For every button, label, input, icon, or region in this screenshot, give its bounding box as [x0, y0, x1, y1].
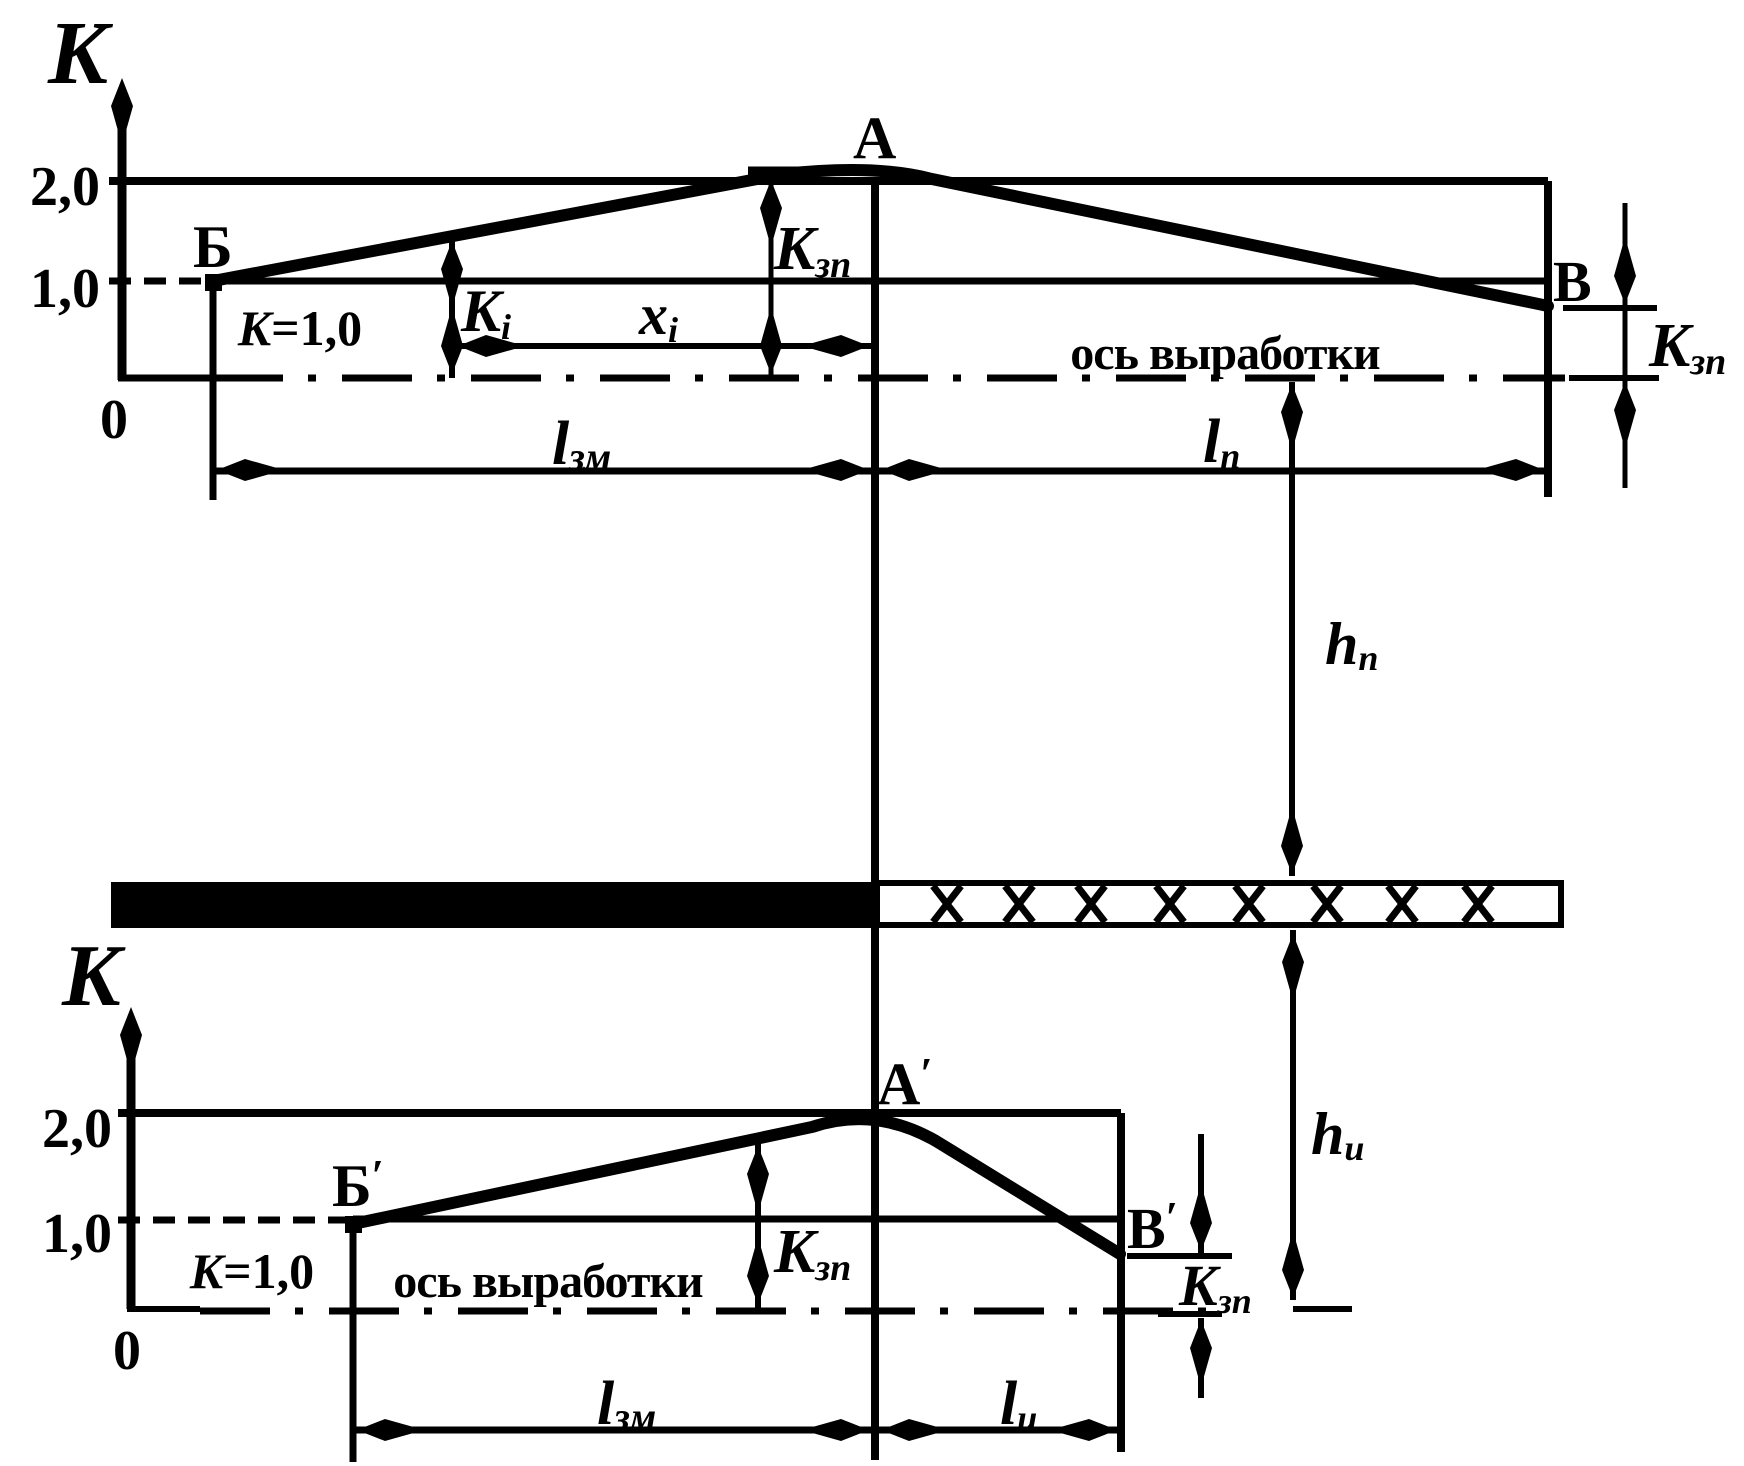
K=1.0 dashed segment (bottom, left of Б') — [118, 1217, 355, 1224]
K=1.0 level line (top) — [213, 278, 1548, 285]
hatched bar (right half) — [877, 883, 1561, 925]
svg-text:0: 0 — [100, 389, 128, 451]
lзм / lп dimension line (top) — [213, 468, 1548, 475]
Кi dimension line — [449, 239, 455, 378]
svg-text:Kзп: Kзп — [1648, 312, 1726, 383]
svg-text:lп: lп — [1203, 408, 1240, 476]
svg-text:hп: hп — [1325, 611, 1378, 678]
svg-text:hи: hи — [1311, 1101, 1364, 1168]
axis corner to origin (top) — [118, 375, 216, 382]
tick at top of Кзп dimension — [748, 167, 822, 176]
right edge of bottom box — [1117, 1113, 1125, 1452]
extension line below Б' — [350, 1224, 357, 1462]
solid black bar (left half) — [111, 882, 877, 928]
svg-text:Kзп: Kзп — [1178, 1253, 1252, 1321]
svg-text:Б′: Б′ — [332, 1151, 384, 1219]
svg-text:Kзп: Kзп — [773, 1218, 851, 1289]
curve Б-А-В (top) — [213, 170, 1548, 306]
y-axis (top graph) — [118, 95, 127, 380]
svg-text:Б: Б — [193, 214, 233, 280]
svg-text:А′: А′ — [877, 1049, 933, 1117]
dash-dot axis line (bottom) — [200, 1308, 1230, 1315]
svg-text:lзм: lзм — [597, 1370, 656, 1439]
Кзп dimension line (top right) — [1623, 203, 1628, 488]
dash-dot axis line (top) — [213, 375, 1565, 382]
right edge of top box — [1544, 181, 1552, 497]
svg-text:lи: lи — [1000, 1370, 1037, 1438]
svg-text:xi: xi — [638, 282, 678, 350]
svg-text:K: K — [61, 928, 126, 1025]
axis corner to origin (bottom) — [127, 1306, 200, 1312]
K=1.0 dashed segment (top, left of Б) — [109, 278, 216, 285]
хi dimension line — [452, 343, 873, 349]
Кзп' dimension line upper part (bottom right) — [1198, 1134, 1204, 1253]
svg-text:А: А — [853, 105, 896, 171]
Кзп' dimension line lower part (bottom right) — [1198, 1318, 1204, 1398]
svg-text:K=1,0: K=1,0 — [237, 300, 362, 356]
Кзп dimension (top right) lower tick — [1569, 375, 1659, 381]
svg-text:Kзп: Kзп — [773, 215, 851, 286]
svg-text:2,0: 2,0 — [30, 156, 100, 218]
lзм / lи dimension line (bottom) — [353, 1427, 1121, 1434]
Кзп dimension line (bottom left) — [755, 1140, 761, 1308]
svg-text:0: 0 — [113, 1320, 141, 1382]
svg-text:K: K — [47, 4, 114, 103]
svg-text:1,0: 1,0 — [30, 258, 100, 320]
svg-text:K=1,0: K=1,0 — [189, 1243, 314, 1299]
curve Б'-А'-В' (bottom) — [353, 1119, 1120, 1254]
svg-text:1,0: 1,0 — [42, 1203, 112, 1265]
tick below В' — [1127, 1253, 1232, 1259]
K=2.0 level line (top box top) — [109, 177, 1548, 185]
Кзп dimension (top right) upper tick — [1563, 305, 1657, 311]
point Б — [205, 274, 222, 291]
y-axis (bottom graph) — [127, 1025, 136, 1309]
Кзп dimension (bottom left) junction dot — [747, 1146, 769, 1206]
hи dimension line — [1290, 930, 1296, 1300]
svg-text:В′: В′ — [1127, 1193, 1178, 1261]
K=1.0 level line (bottom) — [353, 1216, 1119, 1223]
svg-text:ось выработки: ось выработки — [1070, 327, 1380, 380]
X hatch marks — [933, 886, 1492, 922]
hи lower elbow tick — [1293, 1306, 1352, 1312]
svg-text:В: В — [1553, 249, 1592, 314]
K=2.0 level line (bottom box top) — [118, 1109, 1121, 1117]
svg-text:ось выработки: ось выработки — [393, 1255, 703, 1308]
Кзп' tick (bottom right) — [1158, 1311, 1222, 1317]
centre vertical line through А and А' — [871, 185, 879, 1460]
svg-text:lзм: lзм — [552, 410, 611, 479]
point Б' — [345, 1216, 362, 1233]
svg-text:2,0: 2,0 — [42, 1098, 112, 1160]
hп dimension line — [1289, 382, 1295, 876]
extension line below Б — [210, 282, 217, 500]
Кзп dimension line (top centre) — [769, 176, 774, 378]
